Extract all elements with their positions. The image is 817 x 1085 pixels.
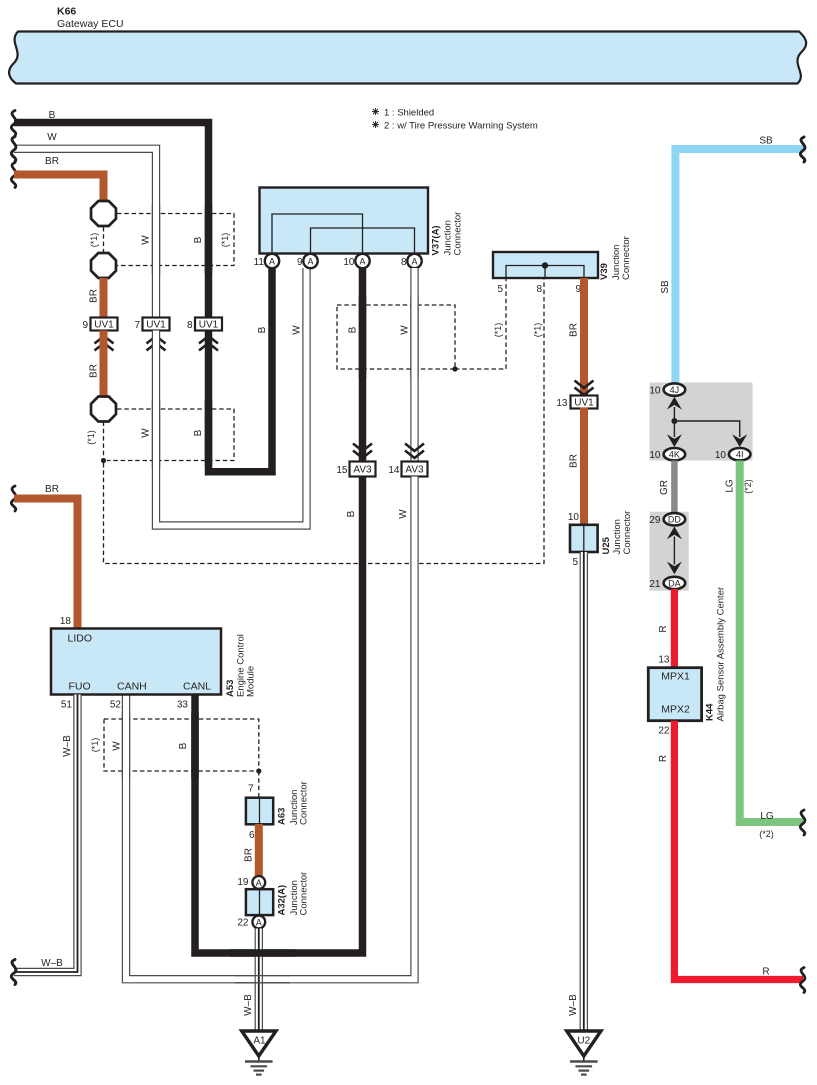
svg-text:A32(A): A32(A) [277,885,288,916]
svg-text:CANL: CANL [183,681,211,693]
wire W patch over dashed rect1 [152,205,160,274]
shield junction dot [101,458,106,463]
svg-text:5: 5 [497,284,503,295]
wire W from left to UV1 7 [14,149,156,318]
svg-text:W: W [112,741,123,751]
wire link junction to 4K [673,421,675,437]
svg-text:(*2): (*2) [759,829,774,839]
svg-text:22: 22 [237,918,249,929]
junction connector U25 box [568,512,598,568]
V39 internal bus [506,266,584,278]
shield junction dot 3 [256,768,261,773]
dashed shield link to A63 pin 7 [258,771,260,797]
svg-text:R: R [658,755,669,762]
svg-text:A: A [307,257,313,267]
svg-text:LG: LG [760,811,774,822]
svg-text:A: A [411,257,417,267]
svg-text:U2: U2 [577,1036,590,1047]
splice UV1 pin 7 box [134,318,169,351]
wire break squiggle R right [800,968,805,993]
wire break squiggle W left redraw [11,137,16,162]
wire B from left to UV1 8 [14,123,209,319]
svg-text:10: 10 [715,450,727,461]
junction connector A63 box [246,798,273,825]
svg-text:18: 18 [60,616,72,627]
svg-text:A1: A1 [253,1036,266,1047]
svg-text:2 : w/ Tire Pressure Warning S: 2 : w/ Tire Pressure Warning System [384,121,538,132]
arrow down into 4I [732,434,747,447]
svg-text:9: 9 [297,257,303,268]
junction connector V39 box [493,252,598,278]
svg-text:W–B: W–B [243,994,254,1016]
dashed shield link to V39 pin 5 [455,279,506,370]
wire link 4J to junction [673,407,675,421]
V37(A) labels [431,212,464,256]
connector shade box 4J/4K/4I [650,383,753,461]
V37(A) pin 8 [401,254,422,268]
svg-text:AV3: AV3 [353,465,372,476]
svg-text:V37(A): V37(A) [431,225,442,255]
svg-text:19: 19 [237,877,249,888]
svg-text:52: 52 [110,700,122,711]
splice AV3 pin 15 box [336,444,375,477]
splice UV1 pin 13 box [556,381,597,410]
arrow up into 4J [667,397,682,410]
svg-text:K66: K66 [57,6,76,18]
arrow down into 4K [667,434,682,447]
wire B below UV1 8 down and right up to V37 pin 11 [209,268,273,472]
svg-text:10: 10 [343,257,355,268]
connector 4I [715,448,751,461]
wire break squiggle B left [11,111,16,136]
arrow down into DA [667,562,682,575]
svg-text:W–B: W–B [41,958,63,969]
splice UV1 pin 9 box [82,318,117,351]
connector shade box DD/DA [650,512,689,591]
wire B crossing patch over dashed rect [191,712,199,778]
svg-text:13: 13 [658,655,670,666]
wire SB from right break to connector 4J [675,149,803,385]
connector DA [649,577,685,590]
svg-text:UV1: UV1 [574,398,594,409]
wire break squiggle W-B left bottom [11,960,16,985]
gateway ECU K66 box [9,32,806,84]
shield junction dot 2 [452,366,457,371]
wire break squiggle BR left [11,163,16,188]
svg-text:Connector: Connector [299,781,310,825]
wire W-B U25 down to ground U2 [580,552,588,1031]
wire break squiggle W-B left bottom redraw [11,960,16,985]
svg-text:7: 7 [134,320,140,331]
svg-text:7: 7 [248,784,254,795]
svg-text:10: 10 [568,512,580,523]
wire W patch over dashed rect2 [152,400,160,468]
shield octagon 3 [91,397,116,422]
svg-text:U25: U25 [601,536,612,554]
wire W below UV1 7 down and right up to V37 pin 9 [156,268,307,526]
svg-text:V39: V39 [599,263,610,280]
ground U2 [567,1031,601,1075]
svg-text:SB: SB [759,136,773,147]
svg-text:(*2): (*2) [743,479,753,494]
junction dot 4J/4K/4I [671,418,677,424]
svg-text:W: W [47,132,57,143]
svg-text:8: 8 [401,257,407,268]
svg-text:BR: BR [89,289,100,303]
A32(A) pin 19 [237,876,265,889]
svg-text:A: A [256,878,262,888]
wire break squiggle LG right [800,810,805,835]
svg-text:W: W [141,235,152,245]
svg-text:Gateway ECU: Gateway ECU [57,18,124,30]
svg-text:51: 51 [61,700,73,711]
wire W AV3 14 down to A53 CANH [126,477,415,980]
svg-text:UV1: UV1 [199,320,219,331]
junction connector A32(A) box [246,889,273,915]
svg-text:GR: GR [659,480,670,495]
svg-text:29: 29 [649,515,661,526]
svg-text:BR: BR [89,364,100,378]
wire BR octagon2 to UV1 9 [100,278,108,318]
svg-text:1 : Shielded: 1 : Shielded [384,108,434,119]
note 2 star [372,121,379,128]
svg-text:4J: 4J [670,385,680,395]
svg-text:BR: BR [569,454,580,468]
wire W bottom run crossing patch [235,976,290,983]
V39 labels [599,236,632,280]
wire W-B A53 FUO down and left to break [14,695,78,973]
svg-text:5: 5 [572,557,578,568]
svg-text:LG: LG [725,479,736,493]
svg-text:4I: 4I [736,450,744,460]
dashed shield rect below A53 [104,719,259,771]
svg-text:(*1): (*1) [89,233,99,248]
wire R DA to MPX1 [671,589,678,668]
V37(A) pin 11 [254,254,280,268]
svg-text:W: W [400,325,411,335]
svg-text:R: R [762,967,769,978]
dashed shield link below octagon 3 [103,422,105,461]
wire B AV3 15 down to A53 CANL [195,477,363,954]
svg-text:(*1): (*1) [220,233,230,248]
A32(A) labels [277,872,310,916]
V37(A) pin 10 [343,254,369,268]
svg-text:SB: SB [660,280,671,294]
junction connector V37(A) box [260,188,429,254]
svg-text:A: A [256,917,262,927]
wire R MPX2 down and right to break [674,721,803,980]
svg-text:BR: BR [244,848,255,862]
U25 labels [601,511,633,555]
wire B patch over dashed rect2 [205,400,213,466]
svg-text:15: 15 [336,465,348,476]
K44 labels [705,587,727,722]
splice AV3 pin 14 box [388,444,427,477]
svg-text:B: B [346,510,357,517]
wire BR from left to A53 pin 18 [14,499,78,629]
connector DD [649,513,685,526]
svg-text:W–B: W–B [62,735,73,757]
splice UV1 pin 8 box [187,318,222,351]
wire W patch over dashed rect3 [410,296,418,378]
svg-text:Connector: Connector [622,511,633,555]
svg-text:W: W [292,325,303,335]
A32(A) pin 22 [237,916,265,929]
wire B bottom run crossing patch [230,949,295,957]
svg-text:10: 10 [649,450,661,461]
svg-text:A: A [269,257,275,267]
dashed shield link octagon1-octagon2 [103,227,105,252]
shield octagon 1 [91,201,116,226]
svg-text:BR: BR [45,484,59,495]
svg-text:(*1): (*1) [90,738,100,753]
note 1 star [372,108,379,115]
connector 4K [649,448,685,461]
wire GR 4K to DD [671,461,678,514]
wire B V37 pin 10 to AV3 15 [359,268,367,462]
svg-text:Connector: Connector [621,236,632,280]
wire break squiggle SB right redraw [800,137,805,162]
V37(A) pin 9 [297,254,318,268]
svg-text:DA: DA [668,578,681,588]
svg-text:22: 22 [658,726,670,737]
ECM A53 box [51,629,221,695]
svg-text:Module: Module [246,666,257,697]
svg-text:9: 9 [82,320,88,331]
wire BR V39 pin 9 down to UV1 13 [580,278,588,396]
svg-text:FUO: FUO [69,681,91,693]
svg-text:(*1): (*1) [533,323,543,338]
svg-text:MPX2: MPX2 [661,704,690,716]
svg-text:Connector: Connector [453,212,464,256]
svg-text:B: B [257,326,268,333]
svg-text:CANH: CANH [117,681,147,693]
shield octagon 2 [91,253,116,278]
wire break squiggle SB right [800,137,805,162]
svg-text:14: 14 [388,465,400,476]
A53 labels [225,634,257,697]
svg-text:13: 13 [556,398,568,409]
svg-text:BR: BR [45,156,59,167]
svg-text:B: B [193,429,204,436]
wire B patch over dashed rect3 [359,296,367,378]
svg-text:R: R [658,625,669,632]
svg-text:W–B: W–B [568,994,579,1016]
ECU K66 label [57,6,124,31]
wire W V37 pin 8 to AV3 14 [410,268,418,462]
wire W crossing patch over dashed rect [122,712,130,778]
svg-text:UV1: UV1 [94,320,114,331]
wire BR UV1 9 to octagon 3 [100,331,108,397]
connector 4J [649,383,685,396]
wire break squiggle W left [11,137,16,162]
wire BR UV1 13 down to U25 [580,408,588,526]
svg-text:B: B [193,236,204,243]
svg-text:K44: K44 [705,703,716,721]
svg-text:A: A [359,257,365,267]
wire break squiggle BR left lower [11,486,16,511]
dashed shield loop octagon 3 [107,409,234,461]
wire link DD to DA [673,537,675,565]
svg-text:LIDO: LIDO [68,633,93,645]
svg-text:(*1): (*1) [493,323,503,338]
dashed shield run to V39 pin 8 [104,279,545,564]
svg-text:A63: A63 [277,808,288,825]
svg-text:MPX1: MPX1 [661,671,690,683]
wire BR A63 to A32(A) [255,824,263,876]
wire BR from left to shield octagon [14,175,104,201]
svg-text:BR: BR [569,323,580,337]
svg-text:8: 8 [187,320,193,331]
svg-text:33: 33 [177,700,189,711]
svg-text:A53: A53 [225,680,236,697]
svg-text:DD: DD [668,515,681,525]
wire B patch over dashed rect1 [205,205,213,274]
V37(A) internal bus 9-8 [311,228,415,253]
wire link junction to 4I [674,421,739,437]
dashed shield rect around B and W wires [337,305,455,369]
airbag sensor K44 box [648,668,701,721]
svg-text:W: W [141,428,152,438]
svg-text:B: B [348,326,359,333]
arrow up into DD [667,527,682,540]
V37(A) internal bus 11-10 [272,214,363,253]
svg-text:8: 8 [536,284,542,295]
svg-text:10: 10 [649,386,661,397]
svg-text:(*1): (*1) [86,430,96,445]
svg-text:Connector: Connector [299,872,310,916]
ground A1 [242,1031,276,1075]
svg-text:6: 6 [249,830,255,841]
svg-text:W: W [398,509,409,519]
wire LG 4I down and right to break [740,461,803,823]
svg-text:11: 11 [254,257,265,268]
V39 bus junction dot and stub [542,262,548,277]
svg-text:4K: 4K [669,450,680,460]
dashed shield loop to B wire [117,214,234,266]
A63 labels [277,781,310,825]
svg-text:UV1: UV1 [146,320,166,331]
svg-text:21: 21 [649,579,661,590]
svg-text:B: B [178,742,189,749]
svg-text:AV3: AV3 [405,465,424,476]
svg-text:Airbag Sensor Assembly Center: Airbag Sensor Assembly Center [716,587,727,722]
wire W-B A32(A) down to ground A1 [255,929,263,1032]
